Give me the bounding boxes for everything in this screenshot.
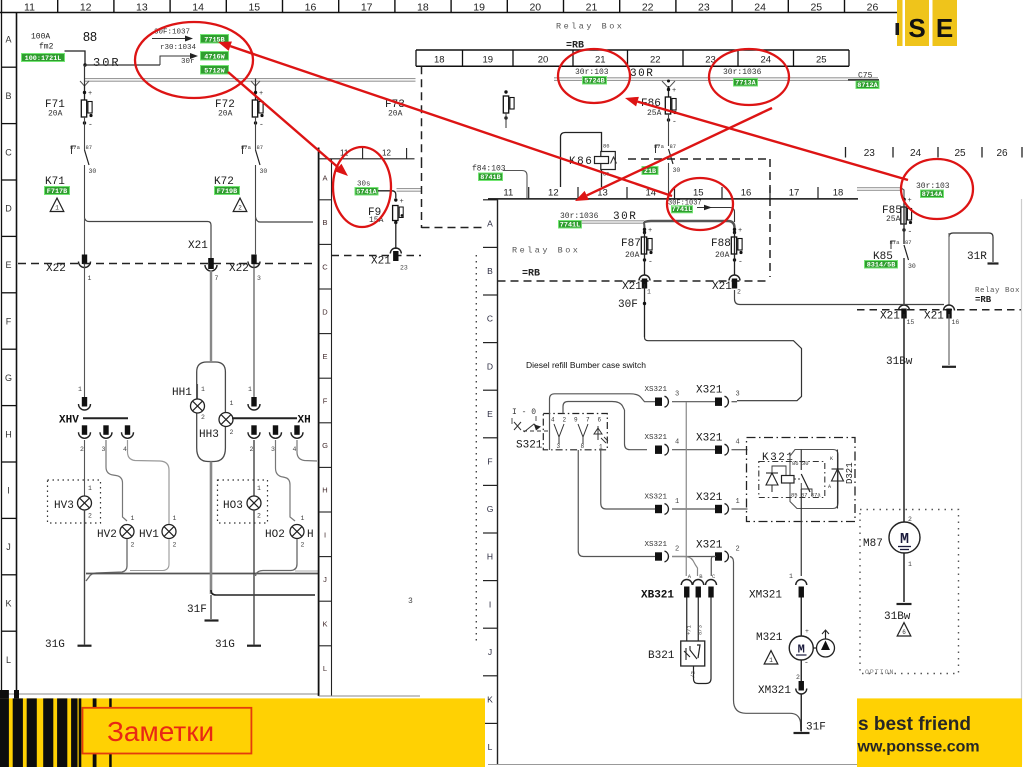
svg-text:87: 87 bbox=[257, 144, 264, 151]
svg-text:D: D bbox=[487, 361, 493, 371]
svg-text:3: 3 bbox=[408, 597, 413, 606]
svg-text:H: H bbox=[5, 429, 12, 439]
svg-text:K: K bbox=[322, 620, 327, 629]
svg-text:B: B bbox=[322, 218, 327, 227]
svg-text:31F: 31F bbox=[187, 604, 207, 616]
svg-text:24: 24 bbox=[910, 148, 922, 159]
svg-text:20A: 20A bbox=[48, 110, 63, 119]
svg-text:23: 23 bbox=[864, 148, 876, 159]
svg-text:8: 8 bbox=[581, 443, 585, 450]
svg-text:2: 2 bbox=[238, 205, 242, 212]
svg-text:5724B: 5724B bbox=[584, 77, 604, 85]
svg-text:A: A bbox=[322, 174, 327, 183]
svg-text:17: 17 bbox=[361, 2, 373, 14]
svg-text:+: + bbox=[400, 198, 404, 206]
svg-text:8314/5B: 8314/5B bbox=[867, 261, 896, 269]
svg-text:HO2: HO2 bbox=[265, 529, 285, 541]
svg-text:-: - bbox=[738, 258, 743, 267]
svg-text:86 30: 86 30 bbox=[792, 460, 809, 467]
svg-text:HH3: HH3 bbox=[199, 429, 219, 441]
svg-text:6: 6 bbox=[902, 629, 906, 636]
svg-text:12: 12 bbox=[80, 2, 92, 14]
svg-text:31Bw: 31Bw bbox=[884, 611, 911, 623]
svg-text:5712W: 5712W bbox=[204, 67, 225, 75]
svg-text:r30:1034: r30:1034 bbox=[160, 44, 197, 52]
svg-text:7741L: 7741L bbox=[560, 221, 580, 229]
svg-text:2: 2 bbox=[230, 429, 234, 436]
svg-text:8/3: 8/3 bbox=[697, 625, 704, 635]
svg-text:2: 2 bbox=[796, 674, 800, 681]
svg-text:H: H bbox=[322, 486, 327, 495]
svg-text:1: 1 bbox=[257, 485, 261, 492]
svg-text:-: - bbox=[88, 121, 93, 130]
svg-text:X21: X21 bbox=[622, 281, 642, 293]
svg-text:1: 1 bbox=[55, 205, 59, 212]
svg-text:18: 18 bbox=[417, 2, 429, 14]
svg-text:31R: 31R bbox=[967, 251, 987, 263]
svg-text:1: 1 bbox=[769, 657, 773, 664]
svg-text:8712A: 8712A bbox=[857, 82, 878, 90]
svg-text:I: I bbox=[489, 599, 491, 609]
svg-text:F: F bbox=[487, 457, 492, 467]
svg-text:21: 21 bbox=[586, 2, 598, 14]
svg-text:1: 1 bbox=[675, 498, 679, 506]
svg-text:30R: 30R bbox=[93, 56, 121, 70]
svg-text:20A: 20A bbox=[388, 110, 403, 119]
svg-text:+: + bbox=[88, 90, 92, 98]
svg-text:26: 26 bbox=[996, 148, 1008, 159]
svg-text:E: E bbox=[487, 409, 493, 419]
svg-text:+: + bbox=[908, 197, 912, 205]
svg-text:G: G bbox=[5, 373, 12, 383]
svg-text:1: 1 bbox=[647, 289, 651, 296]
svg-text:F717B: F717B bbox=[47, 188, 67, 196]
svg-text:XS321: XS321 bbox=[645, 541, 668, 549]
svg-text:20: 20 bbox=[529, 2, 541, 14]
svg-text:20A: 20A bbox=[715, 251, 730, 260]
svg-text:XM321: XM321 bbox=[749, 590, 782, 602]
svg-text:-: - bbox=[672, 118, 677, 127]
svg-text:+: + bbox=[805, 628, 809, 635]
svg-text:F719B: F719B bbox=[217, 188, 237, 196]
svg-text:16: 16 bbox=[741, 188, 752, 199]
svg-text:K: K bbox=[5, 599, 11, 609]
svg-text:6: 6 bbox=[598, 417, 602, 424]
svg-text:1: 1 bbox=[78, 386, 82, 393]
svg-text:4: 4 bbox=[736, 439, 740, 447]
svg-text:30r:1036: 30r:1036 bbox=[723, 68, 762, 77]
svg-text:2: 2 bbox=[301, 542, 305, 549]
svg-text:18: 18 bbox=[833, 188, 844, 199]
svg-text:M321: M321 bbox=[756, 632, 783, 644]
svg-text:HV2: HV2 bbox=[97, 529, 117, 541]
svg-text:24: 24 bbox=[760, 55, 771, 66]
svg-text:f84:103: f84:103 bbox=[472, 165, 506, 174]
svg-text:X21: X21 bbox=[188, 240, 208, 252]
svg-text:11: 11 bbox=[24, 2, 35, 14]
svg-text:3: 3 bbox=[271, 446, 275, 453]
svg-text:22: 22 bbox=[650, 55, 661, 66]
svg-text:86: 86 bbox=[603, 143, 610, 150]
svg-text:19: 19 bbox=[473, 2, 485, 14]
svg-text:+: + bbox=[259, 90, 263, 98]
svg-text:1: 1 bbox=[599, 444, 603, 451]
svg-text:16: 16 bbox=[305, 2, 317, 14]
svg-text:17: 17 bbox=[789, 188, 800, 199]
svg-text:87: 87 bbox=[905, 239, 912, 246]
svg-text:2: 2 bbox=[737, 289, 741, 296]
svg-text:23: 23 bbox=[698, 2, 710, 14]
svg-text:31F: 31F bbox=[806, 722, 826, 734]
svg-text:20A: 20A bbox=[218, 110, 233, 119]
svg-text:I - 0: I - 0 bbox=[512, 408, 536, 417]
svg-text:X321: X321 bbox=[696, 492, 723, 504]
svg-text:30: 30 bbox=[260, 168, 268, 175]
svg-text:ww.ponsse.com: ww.ponsse.com bbox=[857, 739, 980, 756]
svg-text:D: D bbox=[322, 307, 328, 316]
svg-text:J: J bbox=[488, 647, 492, 657]
svg-text:C: C bbox=[487, 314, 493, 324]
svg-text:XS321: XS321 bbox=[645, 434, 668, 442]
svg-text:23: 23 bbox=[400, 265, 408, 272]
svg-text:-: - bbox=[648, 258, 653, 267]
svg-text:HV1: HV1 bbox=[139, 529, 159, 541]
svg-text:19: 19 bbox=[482, 55, 493, 66]
svg-text:30: 30 bbox=[89, 168, 97, 175]
svg-text:1: 1 bbox=[301, 515, 305, 522]
svg-text:XS321: XS321 bbox=[645, 386, 668, 394]
svg-text:B: B bbox=[487, 266, 493, 276]
svg-text:C: C bbox=[5, 147, 12, 157]
svg-text:D321: D321 bbox=[845, 462, 855, 484]
svg-text:31G: 31G bbox=[45, 639, 65, 651]
svg-text:12: 12 bbox=[548, 188, 559, 199]
svg-text:s best friend: s best friend bbox=[858, 714, 971, 735]
svg-text:22: 22 bbox=[642, 2, 654, 14]
svg-text:8714A: 8714A bbox=[922, 191, 943, 199]
svg-text:25: 25 bbox=[954, 148, 966, 159]
svg-text:25A: 25A bbox=[886, 215, 901, 224]
svg-text:26: 26 bbox=[867, 2, 879, 14]
svg-text:25A: 25A bbox=[647, 109, 662, 118]
svg-text:1: 1 bbox=[131, 515, 135, 522]
svg-text:L: L bbox=[323, 664, 327, 673]
svg-text:E: E bbox=[936, 13, 953, 43]
svg-text:Diesel refill Bumber case swit: Diesel refill Bumber case switch bbox=[526, 360, 646, 370]
svg-text:XB321: XB321 bbox=[641, 590, 674, 602]
svg-text:15: 15 bbox=[248, 2, 260, 14]
svg-text:F87: F87 bbox=[621, 238, 641, 250]
svg-text:1: 1 bbox=[908, 561, 912, 568]
svg-text:XM321: XM321 bbox=[758, 685, 791, 697]
svg-text:X21: X21 bbox=[924, 311, 944, 323]
svg-text:30R: 30R bbox=[630, 68, 654, 80]
svg-text:100:1721L: 100:1721L bbox=[25, 55, 62, 63]
svg-text:30: 30 bbox=[673, 167, 681, 174]
svg-text:7: 7 bbox=[215, 275, 219, 282]
svg-text:F88: F88 bbox=[711, 238, 731, 250]
svg-text:11: 11 bbox=[503, 188, 513, 199]
svg-text:1: 1 bbox=[789, 573, 793, 580]
svg-text:XH: XH bbox=[298, 415, 311, 427]
svg-text:B: B bbox=[5, 91, 11, 101]
svg-text:fm2: fm2 bbox=[39, 43, 54, 52]
svg-text:M: M bbox=[900, 531, 909, 548]
svg-text:A: A bbox=[487, 219, 493, 229]
svg-text:2: 2 bbox=[563, 417, 567, 424]
svg-text:20A: 20A bbox=[625, 251, 640, 260]
svg-text:87: 87 bbox=[670, 143, 677, 150]
svg-text:H: H bbox=[487, 552, 493, 562]
svg-text:31Bw: 31Bw bbox=[886, 356, 913, 368]
svg-text:X22: X22 bbox=[46, 263, 66, 275]
svg-text:X21: X21 bbox=[880, 311, 900, 323]
svg-text:18: 18 bbox=[434, 55, 445, 66]
svg-text:14: 14 bbox=[192, 2, 204, 14]
svg-text:7: 7 bbox=[586, 417, 590, 424]
svg-text:C: C bbox=[322, 263, 328, 272]
svg-text:I: I bbox=[7, 486, 10, 496]
svg-text:2: 2 bbox=[257, 513, 261, 520]
svg-text:+: + bbox=[672, 87, 676, 95]
svg-text:21: 21 bbox=[595, 55, 606, 66]
svg-text:+: + bbox=[738, 227, 742, 235]
svg-text:OPTION: OPTION bbox=[865, 669, 894, 676]
svg-text:=RB: =RB bbox=[975, 295, 992, 305]
svg-text:A: A bbox=[828, 484, 831, 490]
svg-text:3: 3 bbox=[557, 443, 561, 450]
svg-text:30r: 30r bbox=[181, 58, 195, 66]
svg-text:2: 2 bbox=[173, 542, 177, 549]
svg-text:30F: 30F bbox=[618, 299, 638, 311]
svg-text:9: 9 bbox=[574, 417, 578, 424]
svg-text:H: H bbox=[307, 529, 314, 541]
svg-text:2: 2 bbox=[131, 542, 135, 549]
svg-text:=RB: =RB bbox=[522, 269, 540, 280]
svg-text:X321: X321 bbox=[696, 433, 723, 445]
svg-text:F: F bbox=[323, 397, 328, 406]
svg-text:24: 24 bbox=[754, 2, 766, 14]
svg-text:2: 2 bbox=[675, 546, 679, 554]
svg-text:K: K bbox=[487, 695, 493, 705]
svg-text:L: L bbox=[6, 655, 11, 665]
svg-text:1: 1 bbox=[248, 386, 252, 393]
svg-text:+: + bbox=[648, 227, 652, 235]
svg-text:4: 4 bbox=[675, 439, 679, 447]
svg-text:2: 2 bbox=[250, 446, 254, 453]
svg-text:1: 1 bbox=[173, 515, 177, 522]
svg-text:Заметки: Заметки bbox=[107, 716, 214, 747]
svg-text:M87: M87 bbox=[863, 538, 883, 550]
svg-text:2: 2 bbox=[736, 546, 740, 554]
svg-text:X321: X321 bbox=[696, 540, 723, 552]
svg-text:7713A: 7713A bbox=[735, 79, 756, 87]
svg-text:HH1: HH1 bbox=[172, 387, 192, 399]
svg-text:3: 3 bbox=[257, 275, 261, 282]
svg-text:G: G bbox=[487, 504, 494, 514]
svg-text:B321: B321 bbox=[648, 650, 675, 662]
svg-text:13: 13 bbox=[136, 2, 148, 14]
svg-text:1: 1 bbox=[88, 275, 92, 282]
svg-text:4: 4 bbox=[123, 446, 127, 453]
svg-text:-: - bbox=[259, 121, 264, 130]
svg-text:HO3: HO3 bbox=[223, 500, 243, 512]
svg-text:4716W: 4716W bbox=[204, 53, 225, 61]
svg-text:30: 30 bbox=[908, 263, 916, 270]
svg-text:1: 1 bbox=[201, 386, 205, 393]
svg-text:Relay Box: Relay Box bbox=[975, 287, 1020, 295]
svg-text:E: E bbox=[5, 260, 11, 270]
svg-text:J: J bbox=[323, 575, 327, 584]
svg-text:X21: X21 bbox=[371, 256, 391, 268]
svg-text:G: G bbox=[322, 441, 328, 450]
svg-text:F: F bbox=[6, 317, 12, 327]
svg-text:15: 15 bbox=[693, 188, 704, 199]
svg-text:4: 4 bbox=[293, 446, 297, 453]
svg-text:3: 3 bbox=[736, 391, 740, 399]
svg-text:S: S bbox=[908, 13, 925, 43]
svg-text:16: 16 bbox=[952, 319, 960, 326]
svg-text:X22: X22 bbox=[229, 263, 249, 275]
svg-text:3: 3 bbox=[102, 446, 106, 453]
svg-text:2: 2 bbox=[88, 513, 92, 520]
svg-text:-: - bbox=[908, 228, 913, 237]
svg-text:25: 25 bbox=[816, 55, 827, 66]
svg-text:31G: 31G bbox=[215, 639, 235, 651]
svg-text:20: 20 bbox=[538, 55, 549, 66]
svg-text:100A: 100A bbox=[31, 33, 50, 42]
svg-text:I: I bbox=[324, 530, 326, 539]
svg-text:A: A bbox=[5, 35, 11, 45]
svg-text:D: D bbox=[5, 204, 12, 214]
svg-text:+/1: +/1 bbox=[686, 624, 693, 635]
svg-text:-: - bbox=[804, 659, 809, 668]
svg-text:5741A: 5741A bbox=[356, 188, 377, 196]
svg-text:1: 1 bbox=[736, 498, 740, 506]
svg-text:E: E bbox=[322, 352, 327, 361]
svg-text:J: J bbox=[6, 542, 11, 552]
svg-text:21B: 21B bbox=[644, 168, 656, 176]
svg-text:1: 1 bbox=[88, 485, 92, 492]
svg-text:15: 15 bbox=[907, 319, 915, 326]
svg-text:8741B: 8741B bbox=[480, 174, 500, 182]
svg-text:30r:1036: 30r:1036 bbox=[560, 212, 599, 221]
svg-text:2: 2 bbox=[201, 414, 205, 421]
svg-text:7741L: 7741L bbox=[672, 206, 692, 214]
svg-text:S321: S321 bbox=[516, 440, 543, 452]
svg-text:X21: X21 bbox=[712, 281, 732, 293]
svg-text:85 87 87a: 85 87 87a bbox=[791, 492, 821, 499]
svg-text:HV3: HV3 bbox=[54, 500, 74, 512]
svg-text:4: 4 bbox=[551, 417, 555, 424]
svg-text:K: K bbox=[830, 456, 833, 462]
svg-text:87: 87 bbox=[86, 144, 93, 151]
svg-text:3: 3 bbox=[675, 391, 679, 399]
svg-text:Relay Box: Relay Box bbox=[512, 246, 580, 256]
svg-text:L: L bbox=[488, 742, 493, 752]
svg-text:30r:103: 30r:103 bbox=[575, 68, 609, 77]
svg-text:88: 88 bbox=[83, 30, 97, 44]
svg-text:1: 1 bbox=[230, 400, 234, 407]
svg-text:12: 12 bbox=[382, 149, 391, 158]
svg-text:2: 2 bbox=[80, 446, 84, 453]
svg-text:X321: X321 bbox=[696, 385, 723, 397]
svg-text:XHV: XHV bbox=[59, 415, 79, 427]
svg-text:25: 25 bbox=[810, 2, 822, 14]
svg-text:Relay Box: Relay Box bbox=[556, 22, 624, 32]
svg-text:XS321: XS321 bbox=[645, 494, 668, 502]
